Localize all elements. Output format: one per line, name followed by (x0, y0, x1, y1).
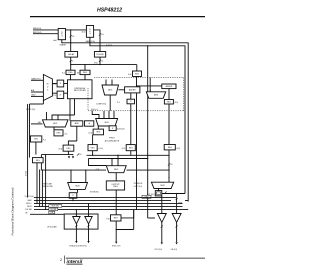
wire buffer outputs with arrows (75, 224, 77, 241)
wire R3 down into adder A1 (136, 77, 138, 87)
svg-text:10: 10 (72, 36, 74, 38)
wire arrows into second acc output (68, 156, 70, 158)
register R3 top of comp section (133, 71, 142, 77)
wire R5 to multiplier (84, 75, 86, 80)
wire adder A3 down to register R16 (76, 126, 78, 141)
wire mux M7 to output register (115, 173, 117, 181)
register DEL delay block (65, 52, 78, 58)
svg-text:P+1: P+1 (62, 73, 65, 75)
register R11 (93, 129, 103, 135)
svg-text:(9:0): (9:0) (174, 102, 178, 104)
svg-text:REG: REG (69, 72, 73, 74)
svg-text:P+1: P+1 (117, 102, 120, 104)
wire R16 to junction line (67, 151, 69, 154)
wire buffer T4 output (176, 222, 178, 242)
register R4 pipeline reg (66, 70, 75, 74)
wire adder A2 to register R9 (168, 89, 170, 100)
wire mux M5 to register R14 (53, 127, 55, 130)
wire V2 junction (147, 155, 148, 156)
svg-text:ROUND: ROUND (96, 54, 104, 56)
svg-text:10: 10 (101, 34, 103, 36)
svg-text:REG: REG (67, 148, 71, 150)
svg-text:REG: REG (34, 139, 38, 141)
bus label box right (142, 195, 151, 198)
svg-text:REG: REG (91, 147, 95, 149)
wire bus A down into DELAY (70, 43, 72, 52)
wire R13 up (130, 104, 132, 145)
buffer T3 tri-state (157, 214, 166, 223)
wire R12 down to bus (92, 151, 94, 156)
register R7 gain reg B (57, 91, 64, 98)
buffer T4 tri-state (172, 214, 181, 223)
svg-text:COMP (9:0): COMP (9:0) (96, 103, 106, 105)
svg-text:OUTA (9:0) OUTB (9:0): OUTA (9:0) OUTB (9:0) (69, 244, 87, 247)
svg-text:MUX: MUX (160, 185, 165, 187)
wire output register down through buses (115, 190, 117, 215)
svg-text:Functional Block Diagram (Cont: Functional Block Diagram (Continued) (11, 187, 15, 235)
wire into buffer 2 (88, 204, 90, 217)
svg-text:MUX SEL: MUX SEL (52, 206, 59, 208)
svg-text:[9]: [9] (77, 73, 79, 75)
svg-text:REG: REG (129, 147, 133, 149)
svg-text:(9:0): (9:0) (59, 149, 63, 151)
mux M1 gain select vertical mux (43, 75, 52, 101)
wire V1 loop to sync junction (133, 210, 135, 230)
wire inputs to mux M4 (103, 111, 105, 119)
register R14 (54, 130, 63, 136)
svg-text:(9:0): (9:0) (177, 148, 181, 150)
wire branches down to shift mux (70, 170, 72, 182)
svg-text:MUX: MUX (75, 186, 80, 188)
register R12 (88, 145, 97, 151)
svg-text:DELAY: DELAY (68, 53, 75, 56)
wire R4 to multiplier (70, 75, 72, 80)
svg-text:STAGE: STAGE (60, 44, 67, 47)
adder A1 (125, 87, 140, 93)
svg-text:E MUX: E MUX (106, 45, 113, 47)
wire feedback bus A across top to right edge and down (62, 40, 188, 202)
register R19 output register (106, 181, 124, 190)
wire horizontal bus above out mux (87, 154, 170, 156)
wire vertical bus tap 3 (41, 170, 43, 207)
svg-text:OE: OE (25, 213, 28, 215)
wire verticals crossing buses from above (36, 163, 38, 204)
multiplier U1 video multiplier array (68, 80, 93, 99)
mux M6 shift mux (68, 183, 88, 190)
svg-text:FIRST: FIRST (109, 138, 115, 140)
svg-text:REG: REG (135, 73, 139, 75)
wire OE enable line (30, 213, 64, 215)
wire corner into out mux left (89, 159, 107, 166)
wire INB toward register R2 (33, 33, 58, 35)
wire branches into out mux M7 (111, 159, 113, 166)
svg-text:OE: OE (51, 212, 53, 214)
wire R18 down to bus (72, 198, 74, 200)
wire connector from mux M1 tail to left rail (30, 103, 44, 105)
wire left reg R15 connections (35, 142, 37, 155)
buffer T1 tri-state (73, 217, 80, 224)
register R15 (31, 136, 42, 142)
register R18 (69, 193, 77, 199)
svg-text:INT MUX B: INT MUX B (134, 183, 143, 185)
wire mux M8 to R21 (158, 189, 160, 191)
wire ROUND output down to bus junction (99, 57, 101, 65)
register R2 input reg B (86, 26, 93, 38)
register R21 with inner box (155, 191, 162, 196)
wire GAIN input (31, 79, 43, 81)
mux M3 right comp mux (146, 92, 165, 99)
wire select input into mux M5 (31, 123, 43, 125)
buffer block enclosure (64, 214, 98, 229)
svg-text:MUX: MUX (154, 95, 159, 97)
svg-text:16: 16 (79, 154, 81, 156)
register R6 gain reg A (57, 80, 64, 87)
svg-text:OE (9:0) A/B: OE (9:0) A/B (47, 226, 57, 229)
svg-text:MUX: MUX (114, 169, 119, 171)
wire horizontal gain bus to register R3 (71, 64, 137, 66)
wire branch down into mux M3 (149, 78, 151, 92)
wire R20 down to mux M8 (168, 150, 170, 182)
wire R22 loop to bus (121, 210, 134, 218)
wire adder A1 output long vertical (136, 93, 138, 210)
wire horizontal accumulate line (41, 154, 72, 156)
wire mux M8 outputs down to buffers (161, 196, 163, 214)
svg-text:MUX: MUX (105, 122, 110, 124)
bus label boxes on lines (49, 205, 62, 208)
wire branch down to reg B of row (84, 65, 86, 71)
adder A2 (162, 84, 176, 89)
svg-text:REG: REG (83, 72, 87, 74)
svg-text:CLK EN: CLK EN (50, 209, 57, 211)
svg-text:(1:0): (1:0) (89, 132, 93, 134)
register R17 (33, 158, 44, 163)
svg-text:ADDER: ADDER (129, 89, 136, 92)
svg-text:REG: REG (113, 186, 118, 188)
wire inputs into mux M2 (105, 80, 107, 86)
register R16 (63, 145, 74, 151)
adder A4 (85, 121, 94, 126)
svg-text:MULTIPLIER: MULTIPLIER (74, 90, 86, 92)
svg-text:D OUT (9:0): D OUT (9:0) (26, 109, 36, 111)
wire feedback B end tick (185, 200, 188, 202)
wire bus with width tick between R1 and R2 (70, 30, 72, 43)
wire M1 out lower (52, 92, 57, 94)
svg-text:P+1: P+1 (53, 84, 56, 86)
svg-text:INT MUX A: INT MUX A (90, 191, 99, 194)
wire left rail into register R15 (30, 138, 31, 140)
wire bus line 3 (34, 203, 183, 205)
mux M5 second accumulator mux (43, 120, 69, 127)
svg-text:P16: P16 (106, 218, 109, 220)
svg-text:(1:0): (1:0) (82, 31, 86, 33)
svg-text:SHIFT/LIMIT: SHIFT/LIMIT (42, 183, 53, 185)
buffer T2 tri-state (85, 217, 92, 224)
svg-text:P+1: P+1 (53, 95, 56, 97)
wire from comp section down to mux M4 (92, 111, 99, 119)
svg-text:OE (9:0): OE (9:0) (171, 249, 178, 251)
wire horizontal into adder A2 (137, 85, 162, 87)
wire DELAY output down to reg row (70, 57, 72, 70)
wire bus line 2 (34, 200, 171, 202)
svg-text:GAIN (9:0): GAIN (9:0) (86, 40, 95, 43)
wire buffer T3 output (161, 222, 163, 242)
register R22 sync reg (111, 215, 122, 221)
wire long horizontal mid line right part (127, 169, 170, 171)
svg-text:CASC: CASC (27, 199, 32, 202)
wire vertical bus tap 4 (45, 155, 47, 210)
svg-text:10: 10 (170, 164, 172, 166)
register R8 comp reg (127, 99, 135, 104)
svg-text:(9:0): (9:0) (128, 74, 132, 76)
svg-text:2: 2 (72, 61, 73, 63)
svg-text:(9:0): (9:0) (94, 62, 98, 64)
wire second long vertical (147, 46, 149, 218)
wire R21 to feedback join (162, 193, 185, 195)
svg-text:ADD: ADD (75, 122, 80, 125)
svg-text:MUX: MUX (108, 90, 113, 92)
svg-text:SYNC OUT: SYNC OUT (112, 246, 121, 248)
svg-text:×10: ×10 (64, 132, 67, 135)
wire box R2 output right then down into ROUND (94, 30, 100, 52)
register RND round block (94, 52, 105, 58)
footer divider tick (63, 256, 65, 264)
wire M1 out upper (52, 83, 57, 85)
svg-text:CLK SEL: CLK SEL (25, 209, 32, 211)
adder A3 (71, 121, 83, 126)
wire R13 down to bus (130, 151, 132, 156)
svg-text:(1:0): (1:0) (122, 148, 126, 150)
svg-text:MUX 1: MUX 1 (27, 206, 32, 208)
wire R22 output down with arrow (115, 221, 117, 242)
wire GND input (31, 95, 43, 97)
mux M7 output mux (106, 166, 126, 173)
svg-text:MUX: MUX (53, 123, 58, 125)
footer rule (66, 257, 205, 259)
wire bus line 1 (34, 197, 176, 199)
mux M4 first accumulator mux (96, 119, 118, 127)
wire R7 to multiplier (64, 92, 68, 94)
wire R11 path (97, 126, 99, 129)
svg-text:S (9:0): S (9:0) (26, 171, 28, 176)
wire bus line 5 (34, 209, 188, 211)
wire long horizontal mid line left part (41, 169, 106, 171)
wire bus line 4 (34, 206, 183, 208)
register R9 (164, 100, 173, 105)
svg-text:AND ROUND: AND ROUND (42, 185, 54, 188)
svg-text:OUT (9:0): OUT (9:0) (154, 249, 162, 251)
wire adder A1 to register R8 (130, 93, 132, 99)
svg-text:HSP48212: HSP48212 (97, 7, 122, 13)
wire into buffer 1 (75, 210, 77, 217)
wire R12 up to R11 (92, 135, 94, 145)
wire R6 to multiplier (64, 83, 68, 85)
wire R9 down to register R20 (168, 104, 170, 145)
svg-text:REG: REG (96, 132, 100, 134)
svg-text:A (9:0)+B: A (9:0)+B (117, 128, 125, 131)
mux M2 comp mux (102, 85, 119, 95)
svg-text:REG: REG (57, 133, 61, 135)
register R5 pipeline reg (80, 70, 90, 74)
wire mux M6 to register R18 (77, 190, 79, 193)
wire horizontal bus 2 above out mux (89, 158, 148, 160)
mux M8 right output mux (151, 182, 173, 188)
svg-text:ADDER: ADDER (166, 85, 173, 88)
svg-text:MUX 0: MUX 0 (26, 203, 31, 205)
wire multiplier outputs down to second acc (69, 99, 71, 121)
svg-text:2: 2 (60, 258, 62, 262)
wire mux M4 to R10 (112, 125, 114, 127)
svg-text:P+1: P+1 (43, 140, 46, 142)
register R20 (164, 145, 175, 150)
svg-text:LIMIT (9:0): LIMIT (9:0) (134, 186, 143, 188)
svg-text:REG: REG (114, 218, 118, 220)
wire A/B input (31, 91, 43, 93)
wire mux M2 to adder A1 (119, 89, 125, 91)
wire INA to register R1 (33, 29, 58, 31)
register R1 input reg A (58, 29, 65, 40)
svg-text:S OUT (9:0): S OUT (9:0) (25, 196, 35, 198)
register R13 (126, 145, 135, 151)
wire junction on bus (168, 155, 169, 156)
svg-text:11: 11 (101, 60, 103, 62)
register R10 acc reg small (109, 126, 116, 131)
svg-text:×(1:0): ×(1:0) (98, 147, 103, 150)
wire feedback bus B across top to right edge and down (90, 37, 185, 193)
svg-text:REG: REG (168, 147, 172, 149)
svg-text:A=0: A=0 (54, 39, 57, 42)
header rule (30, 16, 205, 18)
dashed block boundary compensation section (94, 77, 184, 79)
svg-text:ACCUMULATOR: ACCUMULATOR (105, 140, 120, 143)
wire left verticals to bottom (27, 104, 29, 198)
